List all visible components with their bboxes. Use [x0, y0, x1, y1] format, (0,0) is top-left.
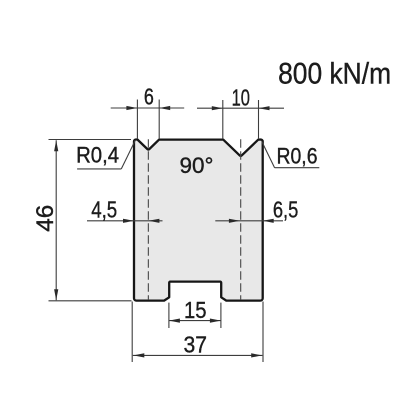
dim 4,5: arrow at centerline: [148, 219, 159, 223]
dim 37: dimension line: [133, 354, 263, 356]
dim 6,5: arrow at right face: [263, 219, 274, 223]
dim 10: extension lines: [222, 100, 224, 139]
leader R0,6 underline: [275, 167, 320, 169]
dim 15: dimension line: [169, 320, 221, 322]
svg-text:15: 15: [184, 297, 207, 323]
dim 6: dimension line: [111, 107, 185, 109]
svg-text:4,5: 4,5: [91, 197, 117, 223]
svg-text:37: 37: [183, 332, 207, 358]
die body outline (2-V press brake die cross-section): [134, 140, 263, 301]
dim 6: extension lines: [136, 100, 138, 140]
dim 10: dimension line: [197, 107, 284, 109]
svg-text:6,5: 6,5: [273, 197, 299, 223]
leader R0,4 underline: [77, 168, 121, 170]
dim 6,5: arrow at centerline: [215, 220, 283, 222]
dim 15: extension lines: [168, 303, 170, 328]
svg-text:6: 6: [144, 84, 154, 110]
dim 4,5: dimension line left part with arrow at left face: [87, 220, 163, 222]
dim 46: extension lines: [49, 139, 132, 141]
svg-text:46: 46: [32, 205, 59, 232]
leader R0,4: [121, 140, 135, 169]
dim 46: dimension line: [55, 140, 57, 300]
svg-text:90°: 90°: [180, 153, 214, 178]
svg-text:800 kN/m: 800 kN/m: [278, 58, 391, 91]
centerline right V (dashed): [240, 139, 242, 300]
svg-text:10: 10: [232, 85, 250, 111]
leader R0,6: [262, 142, 275, 168]
dim 37: extension lines: [131, 302, 133, 363]
centerline left V (dashed): [147, 139, 149, 300]
svg-text:R0,4: R0,4: [76, 143, 119, 168]
svg-text:R0,6: R0,6: [277, 144, 318, 169]
